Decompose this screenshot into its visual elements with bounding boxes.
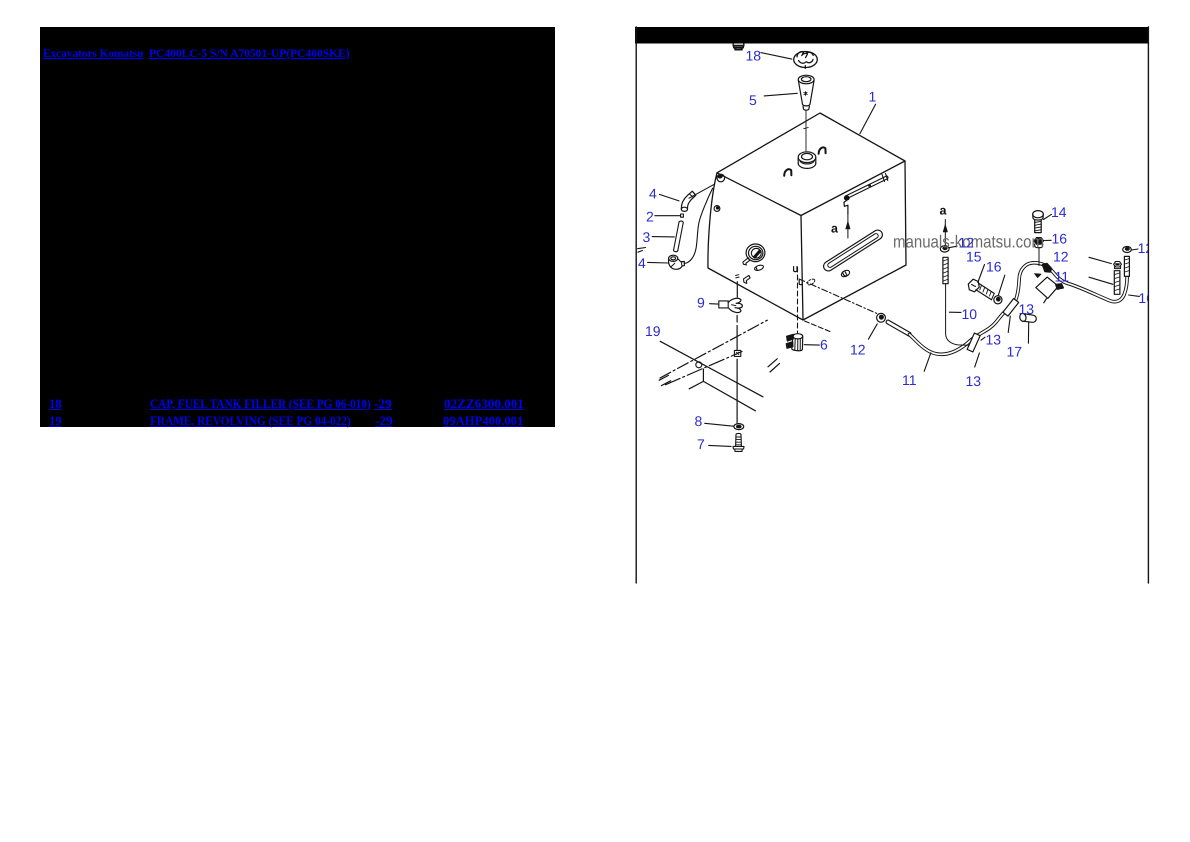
nipple 2: [681, 214, 684, 217]
parts table row 19: [49, 415, 62, 428]
bolt 14 hidden line to clamp: [1038, 248, 1040, 266]
leader 8: [705, 423, 734, 426]
leader 17: [1027, 322, 1029, 343]
svg-text:18: 18: [746, 48, 762, 64]
leader 15: [978, 265, 985, 283]
leader 12 left: [868, 324, 877, 339]
washer under arrow a (right): [940, 246, 949, 252]
frame 19 : curl joint: [696, 362, 702, 368]
svg-text:12: 12: [850, 342, 866, 358]
far right stud 12: [1124, 256, 1129, 276]
svg-text:11: 11: [902, 372, 917, 388]
svg-text:19: 19: [645, 323, 661, 339]
fuel hose 11 (lower run): [910, 308, 1011, 355]
nut on right stud: [1114, 262, 1122, 269]
leader 12 clipped: [1132, 249, 1138, 250]
leader 3: [652, 236, 674, 238]
diagram left border: [635, 27, 637, 583]
frame 19 : rail 2 dash-dot: [665, 352, 742, 385]
washer 12 (left, on dash line): [877, 313, 886, 322]
clip A near gauge: [743, 258, 750, 265]
frame 19 : lower member: [689, 369, 755, 411]
filler cap 18: [794, 52, 818, 69]
svg-text:13: 13: [986, 332, 1002, 348]
svg-text:10: 10: [962, 306, 978, 322]
svg-text:17: 17: [1007, 344, 1023, 360]
fuel tank 1 : lifting hook right: [819, 147, 826, 153]
clamp 9: [719, 298, 743, 312]
diagram top title bar: [635, 27, 1149, 44]
dark clamp on hose right: [1055, 284, 1063, 290]
frame line stub at left border: [638, 248, 646, 253]
leader 1: [860, 104, 876, 134]
diagram right border: [1147, 27, 1149, 583]
fuel tank 1 : lifting hook left: [784, 169, 791, 176]
svg-text:13: 13: [966, 373, 982, 389]
svg-text:16: 16: [1052, 231, 1068, 247]
hidden dash-dot line D1 to washer 12: [799, 279, 877, 314]
frame 19 : left cut marks: [659, 375, 670, 385]
blue part number labels: [638, 48, 1154, 453]
nut 16 (top): [1034, 238, 1044, 248]
clip C on left face: [744, 275, 751, 283]
elbow 4 (top): [681, 191, 696, 211]
svg-text:14: 14: [1051, 204, 1067, 220]
leader 13 bottom: [975, 353, 980, 367]
svg-text:12: 12: [1053, 249, 1069, 265]
washer on far right stud: [1123, 247, 1132, 253]
sight gauge slot on right face: [822, 228, 884, 272]
svg-text:4: 4: [638, 255, 646, 271]
grommet 17: [1019, 313, 1036, 323]
bolt 7: [733, 433, 744, 451]
square nut on axis: [734, 350, 740, 356]
label 16 clipped: [1138, 290, 1154, 306]
stud 10 hidden line to clamp: [946, 284, 969, 346]
leader 2: [655, 215, 681, 217]
title links: [43, 47, 144, 60]
leader 4 bottom: [648, 261, 669, 264]
leader 18: [761, 53, 792, 60]
leader 11 bottom: [924, 353, 931, 371]
bolt 15: [968, 279, 994, 300]
svg-text:9: 9: [697, 295, 705, 311]
hidden dash line D2 from bottom corner: [805, 321, 831, 332]
leader 12 watermark: [950, 246, 958, 247]
tag B near gauge: [754, 264, 764, 271]
svg-text:13: 13: [1019, 301, 1035, 317]
corner fitting at tank top-left: [717, 174, 725, 182]
position arrow a (left): [846, 214, 850, 238]
leader 13 mid: [981, 337, 985, 340]
leader 14: [1044, 214, 1052, 219]
svg-text:4: 4: [649, 186, 657, 202]
bracket plate: [1036, 277, 1059, 303]
svg-text:8: 8: [695, 413, 703, 429]
leader 4 top: [659, 194, 679, 201]
leader 16 mid: [998, 275, 1005, 295]
left black panel: [40, 27, 555, 427]
svg-text:15: 15: [966, 249, 982, 265]
svg-text:12: 12: [1138, 240, 1154, 256]
washer 8: [734, 424, 744, 430]
stud 10: [943, 257, 948, 283]
fuel hose 11 (upper run): [1011, 263, 1128, 308]
strainer-to-neck axis line: [804, 111, 808, 151]
svg-text:3: 3: [643, 229, 651, 245]
dark clamp on hose top: [1035, 263, 1052, 277]
position arrow a (right): [943, 220, 947, 246]
washer 16 (middle): [994, 296, 1002, 304]
leader 11 right: [1089, 277, 1113, 284]
hose clamp 13 (upper): [1003, 298, 1019, 316]
frame 19 : rail 1 dash-dot: [660, 320, 767, 378]
svg-text:16: 16: [986, 259, 1002, 275]
svg-text:11: 11: [1055, 269, 1070, 285]
pipe from bottom elbow up to corner: [684, 188, 712, 263]
leader 10: [949, 311, 961, 313]
drain valve 6: [786, 334, 803, 351]
leader 12 right: [1089, 257, 1111, 263]
svg-text:1: 1: [869, 89, 877, 105]
parts table row 18: [49, 398, 62, 411]
svg-text:5: 5: [749, 92, 757, 108]
round fitting on left edge: [714, 206, 720, 212]
tube 3: [674, 221, 684, 252]
svg-text:a: a: [940, 204, 948, 218]
hose clamp 13 (lower): [967, 333, 980, 352]
position bracket a on tank: [844, 200, 848, 213]
dashed oval mark: [806, 278, 816, 286]
svg-text:12: 12: [959, 235, 975, 251]
fuel tank 1 : hidden front edge (dashed): [797, 267, 799, 333]
leader 9: [710, 303, 719, 305]
svg-text:6: 6: [820, 337, 828, 353]
svg-text:a: a: [831, 222, 839, 236]
leader 5: [764, 93, 797, 96]
level gauge on left face: [746, 244, 765, 262]
frame 19 : right cut marks: [768, 359, 780, 372]
rod / handle on top right face: [844, 174, 888, 201]
mounting axis line: [736, 275, 739, 423]
leader 16 top: [1044, 239, 1051, 241]
bolt head peeking below title bar: [733, 39, 744, 50]
strainer 5: [798, 75, 814, 110]
small plug below slot: [840, 269, 850, 278]
leader 7: [709, 445, 731, 446]
leader lines: [648, 53, 1140, 447]
fuel tank 1 : body outline: [708, 113, 906, 320]
leader 16 clipped: [1129, 295, 1140, 296]
leader 6: [804, 344, 819, 346]
pipe from top elbow to tank corner: [689, 184, 714, 198]
svg-text:7: 7: [697, 436, 705, 452]
U weld marks near front edge: [794, 267, 803, 285]
frame 19 : long edge with label leader: [660, 341, 763, 397]
elbow 4 (bottom): [669, 255, 685, 269]
label 12 clipped: [1138, 240, 1154, 256]
bolt 14: [1033, 211, 1044, 233]
svg-text:16: 16: [1138, 290, 1154, 306]
svg-text:2: 2: [646, 209, 654, 225]
fuel tank 1 : filler neck on top face: [798, 152, 816, 169]
stud 11 (right, behind hose): [1114, 271, 1120, 295]
short tube right of washer 12: [886, 320, 911, 336]
clamp 13b stud line: [1008, 316, 1010, 333]
